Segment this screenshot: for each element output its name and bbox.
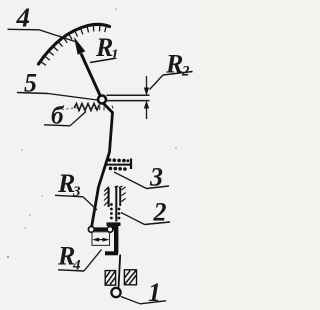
contact pair 2 : right contact [115, 186, 126, 206]
label 2 [121, 198, 170, 227]
contact pair 2 : left contact [104, 187, 109, 207]
label 6 (delta) [44, 103, 86, 130]
hairspring (zigzag) [74, 104, 100, 111]
pivot circle [98, 96, 106, 104]
label R1 [90, 33, 119, 63]
right guide block (hatched) [124, 270, 136, 285]
svg-text:3: 3 [72, 184, 81, 200]
thin rectangle under hinge bar [92, 232, 110, 246]
left guide block (hatched) [105, 271, 115, 286]
label 1 [121, 278, 166, 307]
pointer R1 (needle with arrowhead) [74, 37, 101, 98]
R4 stroke dimension double arrow [92, 238, 109, 242]
paper background [0, 0, 197, 310]
label 3 [114, 163, 169, 192]
label R4 [57, 242, 102, 274]
label 5 [17, 69, 97, 101]
R2 gap dimension arrows [144, 76, 149, 119]
label R3 [55, 169, 97, 210]
push rod [119, 255, 121, 289]
svg-text:4: 4 [16, 3, 31, 33]
contact rod (double horizontal line) [107, 95, 150, 100]
lever (from pivot down) [92, 104, 113, 228]
C bracket frame [105, 226, 118, 253]
dial scale arc [39, 24, 110, 64]
svg-text:1: 1 [111, 47, 119, 63]
solenoid core with winding dots [110, 187, 120, 222]
knurl ticks under pivot [95, 106, 113, 111]
armature T-bar [107, 222, 121, 226]
label R2 [150, 50, 193, 90]
electromagnet coil 3 [107, 158, 133, 171]
bottom roller circle [111, 288, 120, 297]
hinge bar with two joints [88, 227, 113, 233]
label 4 [8, 3, 77, 43]
scale tick marks [40, 25, 106, 66]
scan specks [7, 8, 177, 258]
